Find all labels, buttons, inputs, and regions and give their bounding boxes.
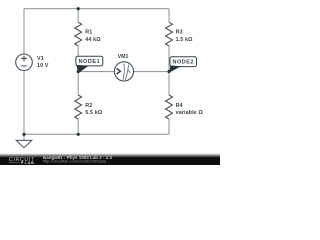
wire middle branch mid bbox=[77, 46, 79, 95]
svg-text:VM1: VM1 bbox=[118, 54, 129, 60]
wire left branch upper bbox=[23, 9, 25, 54]
svg-text:5.5 kΩ: 5.5 kΩ bbox=[85, 110, 102, 116]
footer url text bbox=[43, 159, 107, 164]
svg-text:LAB: LAB bbox=[25, 161, 35, 165]
wire middle branch top stub bbox=[77, 9, 79, 23]
footer bar bbox=[0, 152, 220, 165]
node NODE1 bbox=[76, 56, 103, 73]
resistor R1 bbox=[75, 22, 82, 46]
svg-text:R4: R4 bbox=[176, 103, 183, 109]
svg-text:10 V: 10 V bbox=[37, 63, 49, 69]
wire right branch bottom stub bbox=[168, 119, 170, 134]
wire left branch lower bbox=[23, 71, 25, 135]
junction top rail / middle branch bbox=[77, 7, 80, 10]
wire right branch mid bbox=[168, 46, 170, 95]
footer title text bbox=[42, 155, 113, 160]
label R4 value bbox=[176, 103, 204, 116]
svg-text:http://circuitlab.com/c6rt3bnh: http://circuitlab.com/c6rt3bnh5r5pbq bbox=[43, 159, 107, 164]
svg-text:NODE2: NODE2 bbox=[172, 59, 193, 65]
svg-text:R3: R3 bbox=[176, 30, 183, 36]
label R3 value bbox=[176, 30, 193, 43]
junction node2 bbox=[167, 70, 170, 73]
label R1 value bbox=[85, 30, 101, 43]
label R2 value bbox=[85, 103, 102, 116]
svg-text:1.5 kΩ: 1.5 kΩ bbox=[176, 37, 193, 43]
svg-text:44 kΩ: 44 kΩ bbox=[85, 37, 101, 43]
svg-text:R1: R1 bbox=[85, 30, 92, 36]
voltmeter VM1 bbox=[114, 62, 133, 81]
junction ground node bbox=[22, 133, 25, 136]
label VM1 bbox=[118, 54, 129, 60]
resistor R2 bbox=[75, 95, 82, 119]
wire right branch top stub bbox=[168, 9, 170, 23]
wire top rail bbox=[24, 8, 169, 10]
label V1 value bbox=[37, 56, 49, 69]
junction node1 bbox=[77, 70, 80, 73]
junction bottom rail / middle branch bbox=[77, 133, 80, 136]
resistor R3 bbox=[166, 22, 173, 46]
wire bottom rail bbox=[24, 133, 169, 135]
wire node1 to voltmeter bbox=[78, 71, 114, 73]
wire voltmeter to node2 bbox=[134, 71, 169, 73]
resistor R4 bbox=[166, 95, 173, 119]
voltage source V1 bbox=[16, 54, 33, 71]
wire middle branch bottom stub bbox=[77, 119, 79, 134]
node NODE2 bbox=[169, 57, 196, 73]
ground bbox=[16, 134, 32, 147]
svg-text:V1: V1 bbox=[37, 56, 44, 62]
svg-text:variable Ω: variable Ω bbox=[176, 110, 204, 116]
svg-text:R2: R2 bbox=[85, 103, 92, 109]
svg-text:NODE1: NODE1 bbox=[79, 59, 100, 65]
footer circuitlab logo bbox=[9, 157, 35, 165]
